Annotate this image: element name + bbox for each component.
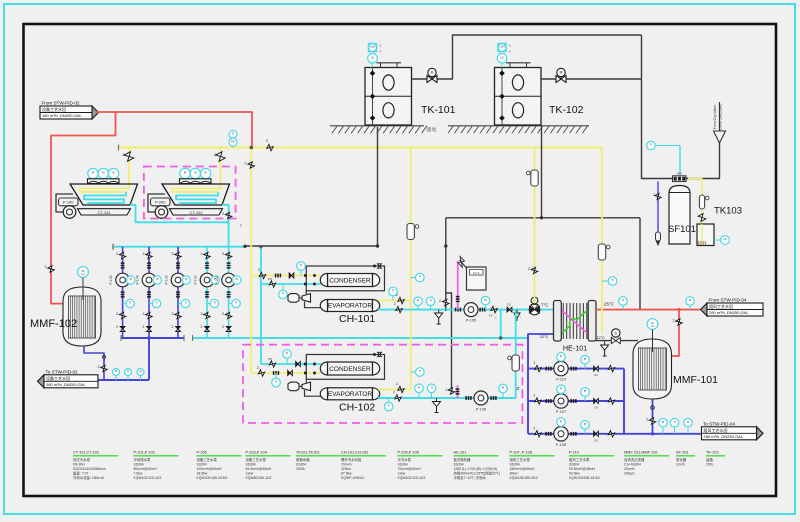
svg-text:93.5m³/h@45mH: 93.5m³/h@45mH xyxy=(569,467,595,471)
svg-text:SS304: SS304 xyxy=(398,462,408,466)
svg-text:2: 2 xyxy=(266,139,268,143)
pipe yellow drop to CT-101 xyxy=(128,148,130,187)
svg-text:7°C: 7°C xyxy=(541,303,548,308)
svg-text:2: 2 xyxy=(143,325,145,329)
svg-text:22°C: 22°C xyxy=(540,335,549,339)
svg-text:TK-102: TK-102 xyxy=(549,104,584,116)
svg-text:闭式冷水塔: 闭式冷水塔 xyxy=(73,457,91,462)
svg-text:2: 2 xyxy=(143,312,145,316)
label From STW-PID-04 xyxy=(701,303,708,316)
svg-text:KQW100/125-11/2: KQW100/125-11/2 xyxy=(134,476,162,480)
svg-text:18.5kw: 18.5kw xyxy=(197,471,208,475)
svg-text:Z: Z xyxy=(517,386,520,391)
svg-text:CV: CV xyxy=(594,438,598,442)
instrument TI on red xyxy=(622,301,624,310)
svg-text:1 m³/h ,DN25,GAL: 1 m³/h ,DN25,GAL xyxy=(719,104,723,130)
svg-text:FI: FI xyxy=(560,419,563,423)
check valve P-101 xyxy=(226,327,231,330)
instrument TI at P-103 xyxy=(178,303,186,305)
check valve CH-102 yellow xyxy=(288,371,290,376)
svg-text:M: M xyxy=(205,171,207,175)
valve inlet P-103 xyxy=(175,252,181,258)
flex P-105 outlet xyxy=(479,308,481,312)
pipe cyan chiller return riser xyxy=(260,247,262,364)
svg-text:TI: TI xyxy=(430,386,433,390)
svg-text:M: M xyxy=(102,171,104,175)
svg-text:CT-8: CT-8 xyxy=(473,271,480,275)
pipe red from HE-101 xyxy=(596,309,700,311)
instrument TI CH-102 lower xyxy=(275,373,277,383)
svg-text:2: 2 xyxy=(143,252,145,256)
svg-text:P-101: P-101 xyxy=(215,275,219,284)
gauge PI on outlet line xyxy=(115,372,117,380)
pipe cyan to CH-102 condenser xyxy=(261,363,321,365)
svg-text:320kw: 320kw xyxy=(341,467,351,471)
instrument PI at P-102 xyxy=(211,276,219,284)
ground hatch xyxy=(332,126,337,134)
svg-text:冷侧走7~12℃,冷侧水: 冷侧走7~12℃,冷侧水 xyxy=(454,475,487,480)
svg-text:93.5kw: 93.5kw xyxy=(569,471,580,475)
svg-text:180 m³/h ,DN200,GAL: 180 m³/h ,DN200,GAL xyxy=(46,382,86,387)
instrument PI at P-105 xyxy=(127,276,135,284)
svg-text:PI: PI xyxy=(584,422,587,426)
chiller CH-101 condenser shell xyxy=(328,274,373,287)
svg-text:P-110: P-110 xyxy=(556,378,566,382)
pipe yellow evap CH-101 return xyxy=(378,300,411,302)
instrument TI below evap CH-102 xyxy=(388,398,390,407)
pipe blue branch P-107 xyxy=(528,400,624,402)
pipe yellow riser to mixing valve xyxy=(534,148,536,304)
svg-text:To STW-PID-02: To STW-PID-02 xyxy=(46,369,79,374)
svg-text:TI: TI xyxy=(622,298,625,302)
vessel MMF-101 xyxy=(633,339,672,399)
valve inlet P-104 xyxy=(146,252,152,258)
svg-text:设备工艺水泵: 设备工艺水泵 xyxy=(197,457,218,462)
svg-text:KQW125/185-30/2: KQW125/185-30/2 xyxy=(510,476,538,480)
svg-text:2: 2 xyxy=(534,361,536,365)
svg-text:CT-101: CT-101 xyxy=(97,210,111,215)
svg-text:P-104: P-104 xyxy=(136,275,140,284)
pipe column P-101 xyxy=(228,247,230,338)
tank TK-101 instruments xyxy=(368,43,376,51)
svg-text:11kw: 11kw xyxy=(398,471,406,475)
svg-text:CONDENSER: CONDENSER xyxy=(329,277,371,284)
svg-text:2: 2 xyxy=(258,268,260,272)
svg-text:MMF-102: MMF-102 xyxy=(30,318,77,330)
svg-text:P-108: P-108 xyxy=(556,443,566,447)
svg-text:TI: TI xyxy=(419,275,422,279)
pipe TK-101 bottom drop xyxy=(377,127,379,246)
svg-text:埋地: 埋地 xyxy=(426,126,436,134)
valve inlet P-101 xyxy=(225,252,231,258)
svg-text:AVA: AVA xyxy=(677,171,682,175)
compressor muffler CH-102 xyxy=(288,382,299,391)
instrument TI at P-104 xyxy=(149,303,157,305)
svg-text:LG: LG xyxy=(500,56,503,60)
svg-text:150m³/h@45mH: 150m³/h@45mH xyxy=(510,467,535,471)
check valve CH-101 cond supply xyxy=(289,273,291,278)
node tank tee xyxy=(376,245,379,248)
svg-text:PI: PI xyxy=(662,420,665,424)
flex on CH-101 cond supply xyxy=(275,274,277,278)
node dots condenser CH-102 feed xyxy=(304,363,306,365)
svg-text:TI: TI xyxy=(429,299,432,303)
pump P-104 xyxy=(142,273,156,287)
svg-text:2: 2 xyxy=(528,267,530,271)
pipe yellow drop to CT-102 xyxy=(220,148,222,187)
svg-text:PI: PI xyxy=(156,277,159,281)
coil yellow in CT-101 xyxy=(80,186,129,192)
enclosure dashed box CH-102 xyxy=(243,345,522,423)
valve on CH-102 cond line xyxy=(269,361,275,367)
gauge AI on outlet xyxy=(687,423,689,434)
svg-text:2: 2 xyxy=(201,325,203,329)
svg-text:2: 2 xyxy=(222,312,224,316)
svg-text:CONDENSER: CONDENSER xyxy=(329,366,371,373)
svg-text:2: 2 xyxy=(673,319,675,323)
flex joint outlet P-102 xyxy=(205,291,209,293)
pipe yellow chiller supply riser xyxy=(250,148,252,374)
gauge TI on outlet xyxy=(674,423,676,434)
svg-text:2: 2 xyxy=(257,366,259,370)
svg-text:TI: TI xyxy=(127,369,130,373)
pipe cyan chilled supply CH-101 xyxy=(378,309,529,311)
svg-text:20m³/h: 20m³/h xyxy=(624,467,635,471)
svg-text:2: 2 xyxy=(534,426,536,430)
flowmeter on yellow riser right xyxy=(598,244,605,260)
coil yellow in CT-102 xyxy=(172,186,221,192)
instrument PI evap CH-102 xyxy=(418,388,420,398)
cooling tower CT-102 fan deck xyxy=(180,179,212,184)
svg-text:PI: PI xyxy=(185,277,188,281)
pipe yellow to brine tank xyxy=(688,179,702,227)
svg-text:LSH: LSH xyxy=(370,45,375,49)
svg-text:SS304: SS304 xyxy=(197,462,207,466)
svg-text:30kw: 30kw xyxy=(510,471,518,475)
motor M-104 on MMF-101 xyxy=(647,319,658,330)
chiller CH-101 evaporator shell xyxy=(328,300,373,312)
valve inlet P-105 xyxy=(119,252,125,258)
flex joint inlet P-102 xyxy=(205,262,209,264)
svg-text:PI: PI xyxy=(502,386,505,390)
instrument FI P-110 xyxy=(560,357,562,362)
svg-text:组风工艺水泵: 组风工艺水泵 xyxy=(569,457,590,462)
flex joint inlet P-103 xyxy=(176,262,180,264)
node blue downcomer tee xyxy=(148,337,151,340)
flex joint outlet P-105 xyxy=(121,291,125,293)
svg-text:25°C: 25°C xyxy=(604,302,614,307)
svg-text:P-105,P-106: P-105,P-106 xyxy=(398,451,419,455)
instrument TI CH-102 cond xyxy=(286,354,288,364)
pipe cyan CH-102 riser xyxy=(515,310,517,398)
valve on CT-102 yellow drop xyxy=(216,152,225,161)
chiller CH-101 refrigerant loop xyxy=(306,266,384,291)
cooling tower CT-102 body xyxy=(162,184,230,205)
node MMF-101 drain xyxy=(651,406,655,410)
svg-text:组风工艺水田: 组风工艺水田 xyxy=(709,303,733,309)
svg-text:From City Water: From City Water xyxy=(713,104,717,129)
check valve P-110 xyxy=(594,366,596,371)
svg-text:热侧300m³/h,0.25℃(侧进22℃): 热侧300m³/h,0.25℃(侧进22℃) xyxy=(454,470,501,475)
pipe cyan CT-102 outlet xyxy=(222,205,229,247)
chiller CH-102 evaporator shell xyxy=(328,388,373,400)
node red-yellow junction xyxy=(251,146,253,148)
svg-text:280 m³/h ,DN250,GAL: 280 m³/h ,DN250,GAL xyxy=(709,310,749,315)
flowmeter on yellow riser mid xyxy=(407,224,414,240)
svg-text:PI: PI xyxy=(115,369,118,373)
instrument PI at P-104 xyxy=(153,276,161,284)
svg-text:2: 2 xyxy=(534,394,536,398)
pump P-100 xyxy=(63,206,76,219)
tick cyan header xyxy=(192,335,194,341)
svg-text:1m³/h: 1m³/h xyxy=(676,462,685,466)
pump P-200 xyxy=(155,206,168,219)
check valve P-105 xyxy=(120,327,125,330)
svg-text:CH-101: CH-101 xyxy=(339,313,375,325)
svg-text:2: 2 xyxy=(116,252,118,256)
svg-text:M: M xyxy=(194,171,196,175)
gauge AI on outlet line xyxy=(140,372,142,380)
expansion tank xyxy=(467,267,487,290)
svg-text:HE-101: HE-101 xyxy=(454,451,467,455)
gauge TI on outlet line xyxy=(127,372,129,380)
vessel MMF-102 xyxy=(63,287,101,346)
pump P-100 label box xyxy=(59,198,79,206)
svg-text:设备工艺水回: 设备工艺水回 xyxy=(42,106,66,112)
pump P-107 xyxy=(554,394,568,408)
svg-text:KQW100/125-11/2: KQW100/125-11/2 xyxy=(398,476,426,480)
instrument PI at P-101 xyxy=(233,276,241,284)
svg-text:2: 2 xyxy=(172,325,174,329)
svg-text:M: M xyxy=(82,269,84,273)
valve brine xyxy=(698,214,706,222)
charge valve CH-101 xyxy=(378,264,382,268)
svg-text:PV: PV xyxy=(268,277,272,281)
chiller CH-102 refrigerant loop xyxy=(306,355,384,380)
pipe cyan evap CH-102 return xyxy=(378,397,516,399)
svg-text:2: 2 xyxy=(396,382,398,386)
pump P-200 suction pipe xyxy=(148,194,165,212)
valve outlet P-103 xyxy=(175,312,181,318)
svg-text:组风工艺水泵: 组风工艺水泵 xyxy=(510,457,531,462)
svg-text:CH-102: CH-102 xyxy=(339,402,375,414)
valve inlet P-108 xyxy=(535,431,541,437)
svg-text:SS304: SS304 xyxy=(569,462,579,466)
svg-text:P-103: P-103 xyxy=(165,275,169,284)
pipe city water drop xyxy=(642,35,720,179)
instrument TI at P-105 xyxy=(123,303,131,305)
valve on evap yellow CH-101 xyxy=(398,297,404,303)
svg-text:MMF-101,MMF-102: MMF-101,MMF-102 xyxy=(624,451,658,455)
svg-text:P-107, P-108: P-107, P-108 xyxy=(510,451,532,455)
pipe MMF-101 bottom drain xyxy=(652,400,654,434)
svg-text:冷却塔水泵: 冷却塔水泵 xyxy=(134,457,152,462)
instrument PI P-107 xyxy=(584,392,586,401)
valve on red branch xyxy=(676,319,682,325)
svg-text:P-102: P-102 xyxy=(194,275,198,284)
svg-text:2: 2 xyxy=(214,153,216,157)
svg-text:LS: LS xyxy=(723,237,726,241)
strainer under HE line xyxy=(604,341,606,345)
cooling tower CT-102 basin xyxy=(170,209,223,215)
pipe makeup drop to softener loop xyxy=(639,218,641,310)
check valve P-102 xyxy=(205,327,210,330)
pipe black HE to MMF-101 xyxy=(596,340,638,342)
pipe cyan discharge header xyxy=(193,337,528,339)
pipe blue branch P-110 xyxy=(528,368,624,370)
sampler purple xyxy=(656,232,661,241)
tank TK-102 manholes xyxy=(512,75,523,90)
pump P-106 xyxy=(474,391,488,405)
svg-text:P-106: P-106 xyxy=(476,408,486,412)
svg-text:P-101,P-102: P-101,P-102 xyxy=(134,451,155,455)
valve outlet P-105 xyxy=(119,312,125,318)
svg-text:From STW-PID-04: From STW-PID-04 xyxy=(709,298,747,303)
svg-text:CT-101,CT-102: CT-101,CT-102 xyxy=(73,451,99,455)
svg-text:2: 2 xyxy=(172,312,174,316)
svg-text:84.4m³/h@45mH: 84.4m³/h@45mH xyxy=(246,467,272,471)
svg-text:SS304: SS304 xyxy=(134,462,144,466)
pipe cyan to mixing valve xyxy=(540,309,554,311)
softener valve manifold xyxy=(673,176,687,182)
node makeup junction xyxy=(244,245,247,248)
instrument TI evap CH-101 xyxy=(392,292,394,301)
motor valve TK-102 xyxy=(557,68,565,76)
instrument FI P-108 xyxy=(560,422,562,427)
pipe column P-104 xyxy=(148,247,150,338)
svg-text:板式换热器: 板式换热器 xyxy=(454,457,472,462)
svg-text:2: 2 xyxy=(222,212,224,216)
chiller CH-102 condenser shell xyxy=(328,362,373,375)
instrument LS TK103 xyxy=(714,239,721,241)
node TK102 tee xyxy=(540,217,543,220)
instrument TI CH-101 cond return xyxy=(282,284,284,295)
svg-text:280 m³/h ,DN250,GAL: 280 m³/h ,DN250,GAL xyxy=(704,434,744,439)
flex in P-107 xyxy=(545,399,547,403)
svg-text:2: 2 xyxy=(201,252,203,256)
instrument TI yellow right xyxy=(602,280,613,282)
svg-text:2: 2 xyxy=(393,391,395,395)
flex joint outlet P-104 xyxy=(147,291,151,293)
pipe yellow to CH-102 condenser xyxy=(251,372,321,374)
flowmeter brine xyxy=(699,195,704,209)
svg-text:S: S xyxy=(615,332,618,336)
svg-text:FB-30H: FB-30H xyxy=(73,462,85,466)
svg-text:TI: TI xyxy=(650,143,653,147)
svg-text:CV: CV xyxy=(594,373,598,377)
svg-text:TI: TI xyxy=(275,380,278,384)
svg-text:CS+SS304: CS+SS304 xyxy=(624,462,641,466)
valve inlet P-102 xyxy=(204,252,210,258)
svg-text:200L: 200L xyxy=(706,462,714,466)
pump P-102 xyxy=(200,273,214,287)
valve cyan CH-102 a xyxy=(395,395,401,401)
compressor muffler CH-101 xyxy=(288,294,299,303)
valve on yellow header xyxy=(267,144,273,150)
heat exchanger HE-101 plates xyxy=(562,303,564,339)
svg-text:TIA: TIA xyxy=(231,139,235,143)
pipe cyan to softener head xyxy=(679,146,681,176)
svg-text:2: 2 xyxy=(646,418,648,422)
svg-text:P-110: P-110 xyxy=(569,451,579,455)
label To STW-PID-02 xyxy=(38,375,45,388)
pipe yellow riser mid xyxy=(410,148,412,390)
valve inlet P-107 xyxy=(535,398,541,404)
svg-text:1285 (L) ×743 (W) ×1238 (H): 1285 (L) ×743 (W) ×1238 (H) xyxy=(454,467,498,471)
check valve P-107 xyxy=(594,399,596,404)
cooling tower CT-101 fan deck xyxy=(88,179,120,184)
pipe blue discharge header xyxy=(121,337,184,339)
svg-text:2: 2 xyxy=(439,299,441,303)
pump P-105 xyxy=(116,273,130,287)
svg-text:2: 2 xyxy=(653,193,655,197)
tank TK-101 top nozzle xyxy=(377,62,402,64)
check valve P-103 xyxy=(176,327,181,330)
check valve after P-105 xyxy=(507,307,509,312)
tank TK-101 shell xyxy=(365,68,412,126)
valve on yellow riser 2 xyxy=(531,267,537,273)
instrument PI P-110 xyxy=(584,360,586,369)
svg-text:2: 2 xyxy=(116,325,118,329)
pump P-110 xyxy=(554,361,568,375)
pump P-101 xyxy=(222,273,236,287)
pipe TK-101 discharge xyxy=(412,35,642,79)
instrument TI at P-101 xyxy=(229,303,237,305)
svg-text:EVAPORATOR: EVAPORATOR xyxy=(328,303,372,310)
flex joint inlet P-105 xyxy=(121,262,125,264)
svg-text:SS304: SS304 xyxy=(296,462,306,466)
city water funnel xyxy=(714,131,726,143)
mixing valve M xyxy=(529,304,540,315)
svg-text:KQW100/185-18.5/2: KQW100/185-18.5/2 xyxy=(569,476,600,480)
pipe blue manifold return xyxy=(623,369,625,434)
node red branch tee xyxy=(678,308,681,311)
svg-text:MMF-101: MMF-101 xyxy=(673,374,718,386)
svg-text:AI: AI xyxy=(689,298,692,302)
pipe makeup drop to chilled line xyxy=(446,218,452,394)
compressor CH-102 xyxy=(302,382,311,391)
charge valve CH-102 xyxy=(378,352,382,356)
svg-text:TK103: TK103 xyxy=(714,206,742,217)
valve on CT-102 outlet xyxy=(225,212,231,218)
pipe yellow to CH-101 condenser xyxy=(251,275,321,277)
heat exchanger HE-101 left plate xyxy=(554,301,562,342)
svg-text:TI: TI xyxy=(235,301,238,305)
valve FV after P-105 xyxy=(491,306,497,312)
coil cyan in CT-102 xyxy=(176,192,218,205)
instrument TI on riser mid xyxy=(411,277,420,279)
svg-text:2: 2 xyxy=(98,365,100,369)
pipe black tank makeup tie xyxy=(245,245,378,247)
valve outlet P-104 xyxy=(146,312,152,318)
motor M-104 on MMF-102 xyxy=(78,267,89,278)
tank TK-101 manholes xyxy=(383,75,394,90)
svg-text:重量: 7.9T: 重量: 7.9T xyxy=(73,470,88,475)
svg-text:盐箱: 盐箱 xyxy=(706,457,713,462)
svg-text:LG: LG xyxy=(371,56,374,60)
svg-text:TI: TI xyxy=(673,420,676,424)
svg-text:PI: PI xyxy=(584,389,587,393)
svg-text:2: 2 xyxy=(240,224,242,228)
svg-text:P-107: P-107 xyxy=(556,410,566,414)
coil cyan in CT-101 xyxy=(84,192,126,205)
valve black makeup CH-102 xyxy=(448,388,454,394)
svg-text:TI: TI xyxy=(232,132,235,136)
node cyan return branch xyxy=(499,337,502,340)
svg-text:11kw: 11kw xyxy=(246,471,254,475)
svg-text:From STW-PID-02: From STW-PID-02 xyxy=(42,101,80,106)
cooling tower CT-101 fan circles xyxy=(88,168,98,178)
